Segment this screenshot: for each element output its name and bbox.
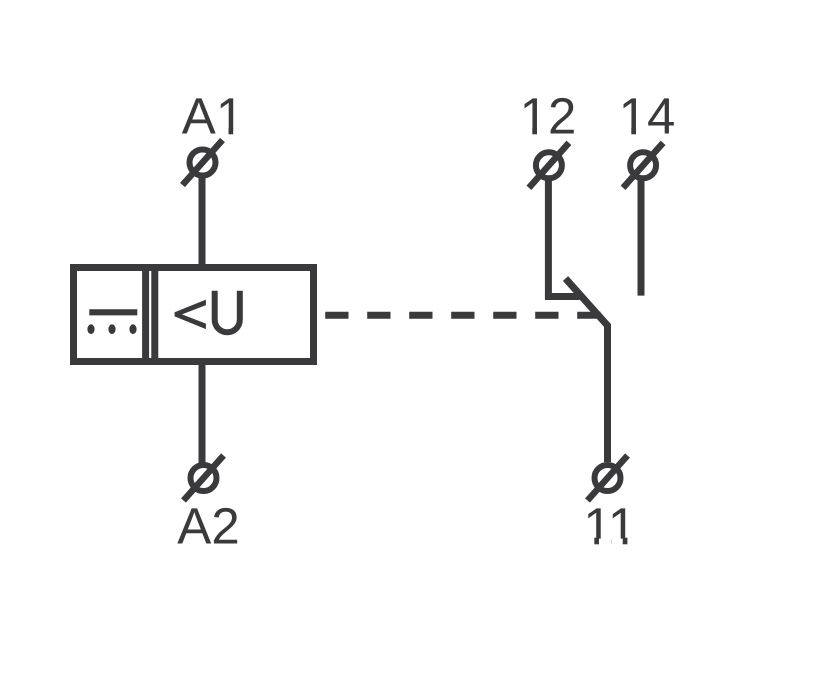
svg-text:14: 14 [619, 88, 676, 145]
svg-text:12: 12 [520, 88, 577, 145]
svg-text:A2: A2 [177, 498, 239, 555]
svg-text:A1: A1 [182, 88, 244, 145]
svg-text:11: 11 [583, 498, 636, 555]
